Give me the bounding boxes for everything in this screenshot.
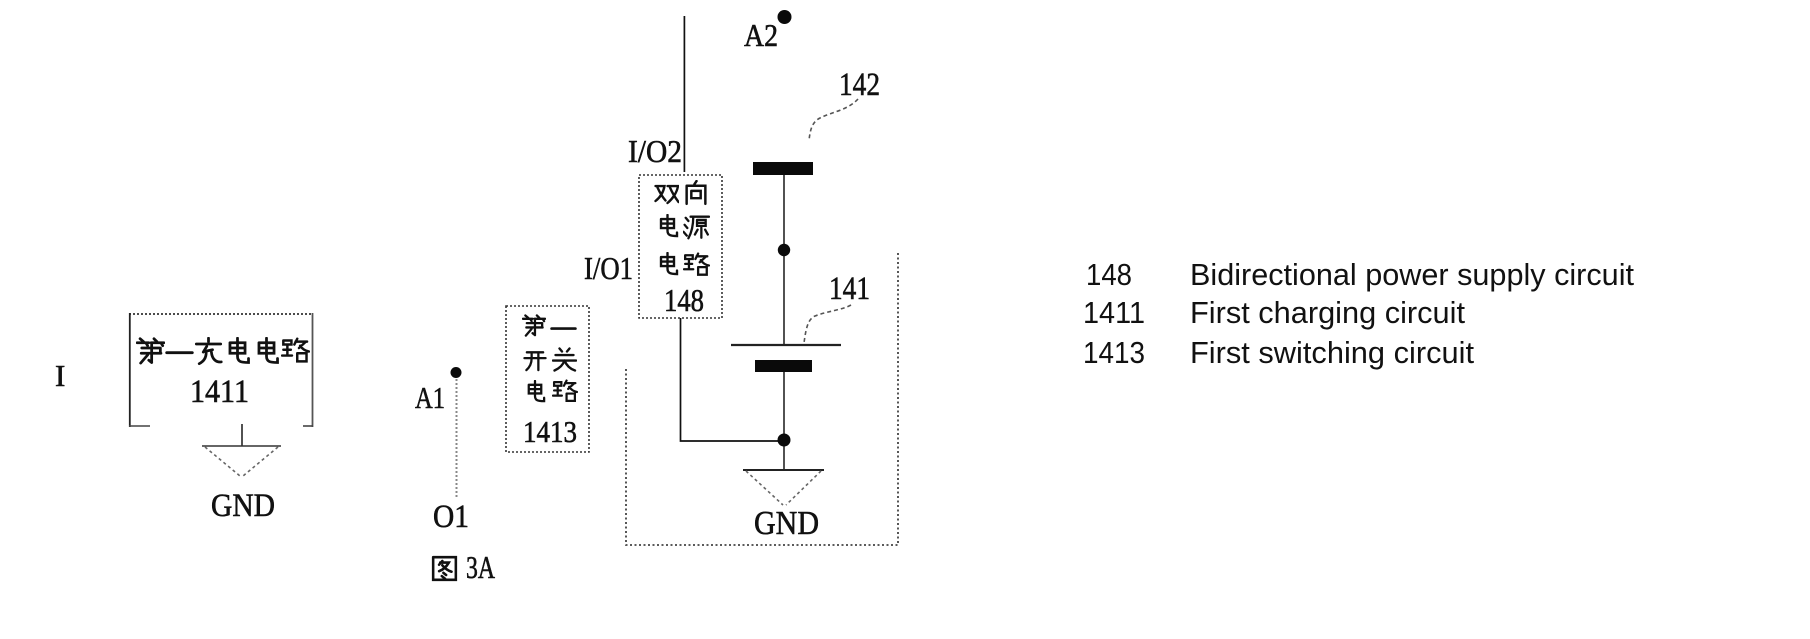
svg-text:I: I [55, 358, 65, 393]
svg-text:A2: A2 [744, 17, 778, 53]
capacitor C142 plate [753, 162, 813, 175]
svg-text:First switching circuit: First switching circuit [1190, 335, 1474, 370]
svg-text:O1: O1 [433, 499, 469, 535]
wire C142 to C141 [783, 175, 785, 345]
svg-text:1413: 1413 [523, 414, 577, 449]
svg-text:148: 148 [1086, 257, 1132, 292]
box U148 title line3 电路 [661, 253, 709, 275]
legend row 148 [1086, 257, 1634, 292]
svg-text:1411: 1411 [1083, 295, 1145, 330]
wire top vertical into I/O2 [683, 16, 685, 172]
svg-text:GND: GND [211, 488, 275, 524]
svg-text:A1: A1 [415, 380, 445, 415]
box 1411 title 第一充电电路 [137, 338, 309, 364]
svg-text:First charging circuit: First charging circuit [1190, 295, 1465, 330]
svg-text:I/O2: I/O2 [628, 133, 682, 169]
node A1 dot [451, 367, 462, 378]
node A2 dot [778, 10, 792, 24]
box U148 bidirectional power supply circuit [639, 175, 722, 318]
svg-text:141: 141 [829, 271, 870, 307]
bracket around 141 region [626, 251, 898, 545]
svg-text:1413: 1413 [1083, 335, 1145, 370]
capacitor C141 bottom plate [755, 360, 812, 372]
svg-text:148: 148 [664, 282, 704, 318]
box 1413 first switching circuit [506, 306, 589, 452]
junction node dot lower [778, 434, 791, 447]
svg-text:GND: GND [754, 505, 819, 542]
capacitor C141 top plate [731, 344, 841, 346]
svg-text:1411: 1411 [190, 374, 249, 410]
caption 图 3A [433, 549, 495, 585]
ground left top bar [202, 445, 281, 447]
box 1413 title line3 电路 [529, 381, 577, 402]
legend row 1413 [1083, 335, 1474, 370]
svg-text:142: 142 [839, 67, 880, 103]
svg-text:3A: 3A [466, 549, 495, 585]
leader line 141 [804, 305, 851, 343]
box 1411 first charging circuit [129, 313, 313, 427]
box U148 title line2 电源 [661, 215, 709, 238]
wire A1 to O1 [456, 379, 458, 497]
wire C141 to ground [783, 372, 785, 470]
legend row 1411 [1083, 295, 1465, 330]
box 1413 title line1 第一 [523, 315, 575, 335]
ground right top bar [743, 469, 824, 471]
leader line 142 [809, 99, 858, 141]
box U148 title line1 双向 [656, 181, 706, 204]
wire from U148 bottom to junction [681, 318, 785, 441]
ground right V sides [746, 471, 821, 505]
junction dot on capacitor wire [778, 244, 790, 256]
svg-text:I/O1: I/O1 [584, 250, 633, 286]
svg-text:Bidirectional power supply cir: Bidirectional power supply circuit [1190, 257, 1634, 292]
ground left V sides [205, 447, 278, 476]
box 1413 title line2 开关 [524, 349, 576, 371]
wire box 1411 to ground [241, 424, 243, 446]
